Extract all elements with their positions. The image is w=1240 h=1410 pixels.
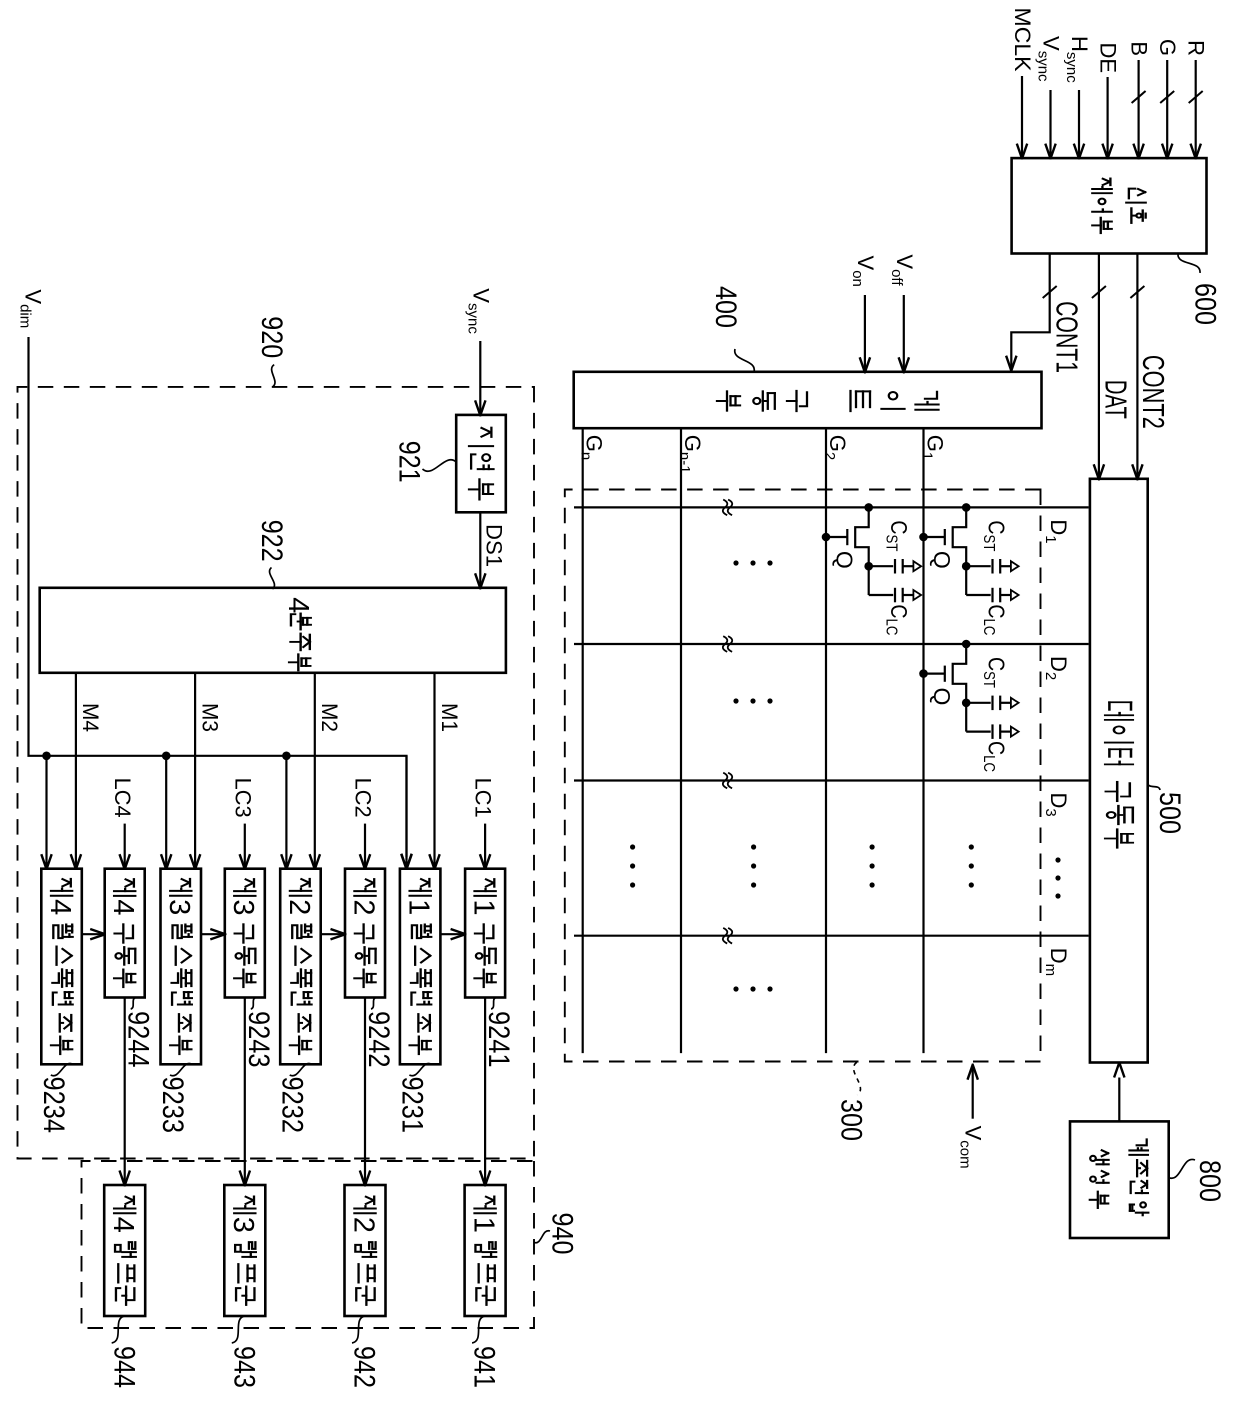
- svg-text:922: 922: [255, 520, 288, 562]
- svg-text:CONT2: CONT2: [1136, 355, 1171, 429]
- svg-text:M3: M3: [197, 703, 222, 732]
- svg-text:4: 4: [107, 899, 139, 915]
- svg-text:942: 942: [348, 1346, 381, 1388]
- svg-text:800: 800: [1193, 1160, 1226, 1202]
- svg-text:LC1: LC1: [471, 778, 496, 818]
- svg-text:4: 4: [282, 597, 314, 613]
- svg-text:3: 3: [163, 899, 195, 915]
- svg-text:R: R: [1184, 40, 1209, 56]
- svg-text:943: 943: [227, 1346, 260, 1388]
- svg-text:400: 400: [709, 286, 742, 328]
- svg-text:DS1: DS1: [481, 524, 506, 567]
- svg-text:920: 920: [255, 316, 288, 358]
- svg-text:9242: 9242: [362, 1011, 395, 1068]
- svg-text:4: 4: [44, 899, 76, 915]
- svg-text:LC2: LC2: [351, 778, 376, 818]
- svg-text:3: 3: [227, 1217, 259, 1233]
- svg-text:921: 921: [393, 441, 426, 483]
- svg-text:300: 300: [835, 1099, 868, 1141]
- svg-text:1: 1: [403, 899, 435, 915]
- svg-text:Q: Q: [929, 551, 955, 569]
- svg-text:2: 2: [347, 1217, 379, 1233]
- svg-text:Q: Q: [832, 551, 858, 569]
- svg-text:Q: Q: [929, 688, 955, 706]
- svg-text:500: 500: [1153, 792, 1186, 834]
- svg-text:G: G: [1155, 39, 1180, 56]
- svg-text:1: 1: [468, 899, 500, 915]
- svg-text:2: 2: [283, 899, 315, 915]
- svg-text:B: B: [1127, 41, 1152, 56]
- svg-text:M1: M1: [437, 703, 462, 732]
- svg-text:CONT1: CONT1: [1049, 301, 1084, 373]
- svg-text:LC3: LC3: [230, 778, 255, 818]
- svg-text:DAT: DAT: [1099, 380, 1134, 419]
- svg-text:9244: 9244: [122, 1011, 155, 1068]
- svg-text:9231: 9231: [395, 1077, 428, 1134]
- svg-text:1: 1: [468, 1217, 500, 1233]
- svg-text:4: 4: [107, 1217, 139, 1233]
- svg-text:2: 2: [347, 899, 379, 915]
- svg-text:9233: 9233: [156, 1077, 189, 1134]
- svg-text:LC4: LC4: [110, 778, 135, 818]
- svg-text:MCLK: MCLK: [1010, 8, 1035, 72]
- svg-text:9234: 9234: [37, 1077, 70, 1134]
- svg-text:9243: 9243: [242, 1011, 275, 1068]
- svg-text:9241: 9241: [482, 1011, 515, 1068]
- svg-text:944: 944: [107, 1346, 140, 1388]
- svg-text:M2: M2: [317, 703, 342, 732]
- svg-text:M4: M4: [78, 703, 103, 732]
- svg-text:9232: 9232: [276, 1077, 309, 1134]
- svg-text:941: 941: [468, 1346, 501, 1388]
- svg-text:600: 600: [1189, 283, 1222, 325]
- svg-text:3: 3: [227, 899, 259, 915]
- svg-text:940: 940: [546, 1213, 579, 1255]
- svg-text:DE: DE: [1096, 42, 1121, 73]
